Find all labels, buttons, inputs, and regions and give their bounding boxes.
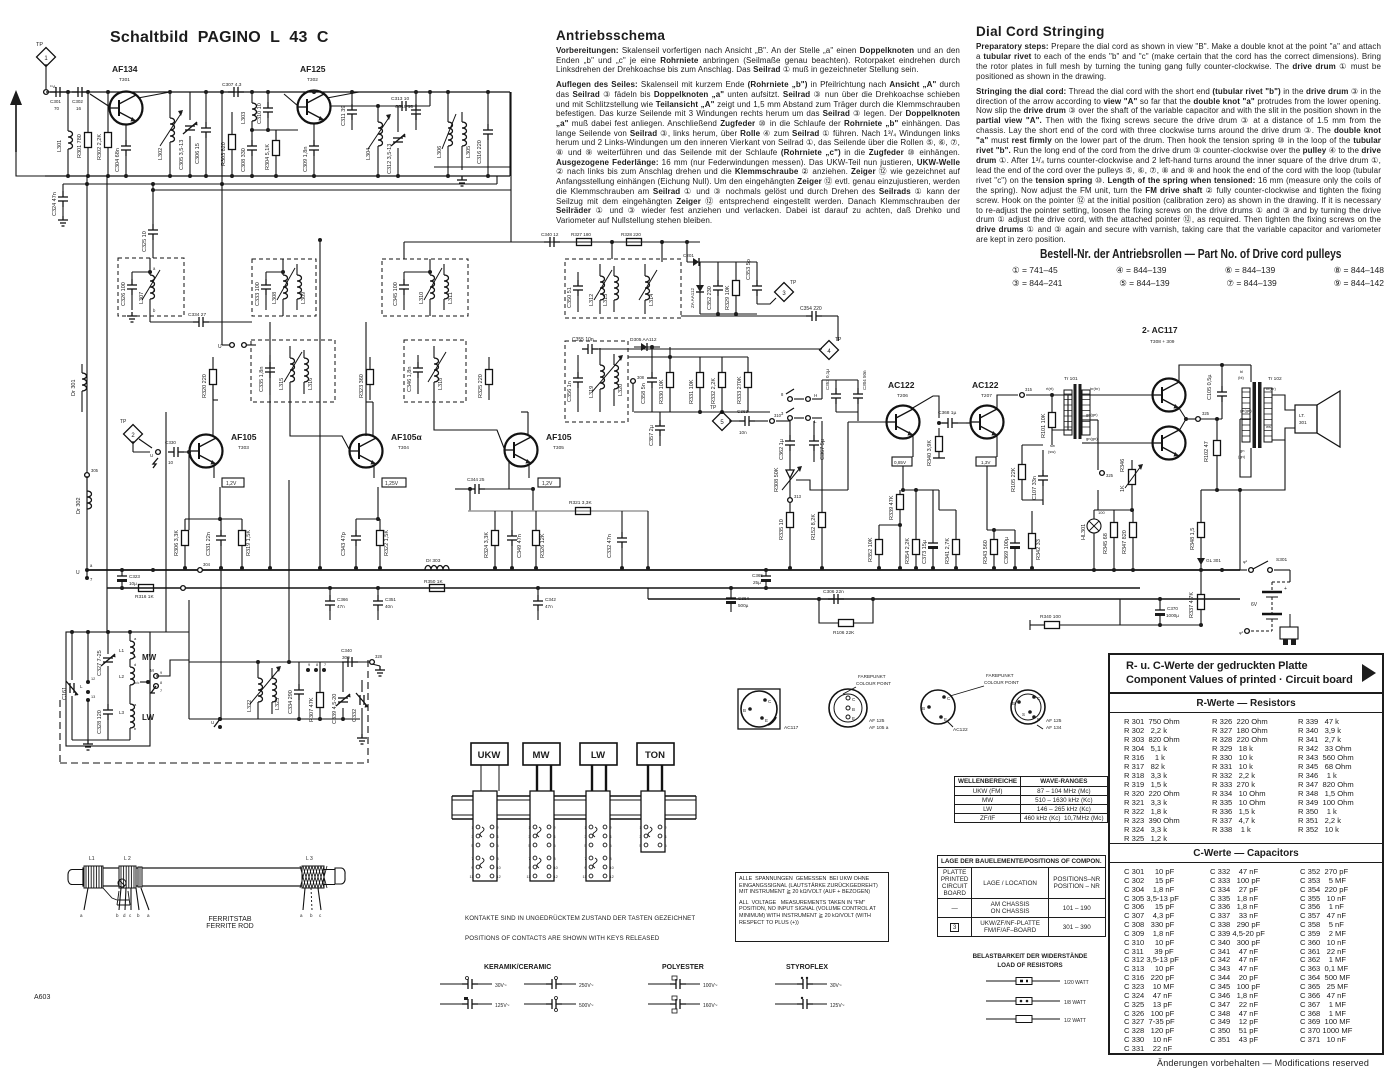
oscillator transformer L322 L323 — [258, 678, 263, 702]
wire right verticals to bus — [1097, 570, 1099, 588]
svg-text:AF125: AF125 — [300, 64, 326, 74]
svg-text:C331 22n: C331 22n — [206, 532, 212, 556]
svg-text:Tr 102: Tr 102 — [1268, 376, 1282, 382]
diode D305 AA112 — [634, 346, 660, 348]
switch contact U mixer — [139, 439, 152, 448]
capacitor C353 5p — [752, 280, 762, 296]
svg-text:C311 39: C311 39 — [341, 106, 347, 126]
node 308 open circle — [631, 379, 636, 384]
inductor L308 — [283, 275, 288, 299]
svg-text:C340 12: C340 12 — [541, 232, 559, 237]
svg-text:8: 8 — [160, 681, 162, 685]
svg-text:3: 3 — [528, 835, 530, 839]
ferrite ring L2b — [138, 867, 142, 887]
wire lamp rail — [1094, 509, 1133, 511]
transistor AC122 T206 — [887, 406, 920, 439]
svg-text:C335 1,8n: C335 1,8n — [259, 367, 265, 392]
resistor R325 220 — [486, 370, 493, 385]
svg-text:1K: 1K — [1120, 485, 1126, 492]
wire main bus 1 — [87, 569, 1240, 571]
wire feedback from speaker — [1240, 440, 1285, 490]
svg-text:M: M — [150, 668, 154, 673]
svg-text:6: 6 — [665, 844, 667, 848]
switch contacts UKW — [476, 825, 480, 829]
resistor R305 22K — [1019, 465, 1026, 480]
resistor R102 47 — [1214, 441, 1221, 456]
variable inductor L302 — [170, 118, 175, 142]
svg-text:br(br): br(br) — [1266, 386, 1276, 391]
svg-text:L 2: L 2 — [124, 856, 131, 862]
svg-text:R335 10: R335 10 — [779, 519, 785, 540]
svg-text:LW: LW — [142, 713, 154, 722]
capacitor C352 230 — [713, 280, 723, 296]
svg-text:(gn): (gn) — [1238, 454, 1246, 459]
inductor L314 — [645, 276, 650, 300]
inductor L312 — [600, 276, 605, 300]
svg-text:R332 2,2K: R332 2,2K — [711, 378, 717, 404]
svg-text:R333 270K: R333 270K — [737, 376, 743, 404]
wire TP1 to rail — [45, 64, 47, 89]
svg-text:308: 308 — [637, 375, 645, 380]
legend keramik cap 30V — [440, 983, 465, 985]
svg-text:C373 15µ: C373 15µ — [922, 539, 928, 564]
svg-text:R326 12K: R326 12K — [540, 533, 546, 558]
resistor R326 12K — [533, 531, 540, 546]
svg-text:8: 8 — [781, 392, 784, 397]
svg-text:L314: L314 — [649, 294, 655, 306]
wire main bus 3 — [648, 598, 1240, 600]
resistor R321 3.3K — [576, 508, 591, 515]
svg-text:R304 5,1K: R304 5,1K — [265, 144, 271, 170]
push button UKW — [471, 743, 508, 765]
svg-text:E: E — [1037, 717, 1040, 722]
svg-text:T207: T207 — [981, 393, 992, 399]
contacts osc top — [306, 668, 310, 672]
svg-text:AF 134: AF 134 — [1046, 725, 1062, 731]
wire x107 vertical from top — [106, 176, 108, 632]
svg-text:5: 5 — [720, 420, 724, 426]
legend resistor 1/20 watt — [986, 980, 1016, 982]
svg-text:5: 5 — [584, 844, 586, 848]
svg-text:1/8 WATT: 1/8 WATT — [1064, 1000, 1086, 1006]
capacitor C363 10n af coupling — [739, 416, 755, 426]
capacitor C356 1n — [573, 372, 583, 388]
svg-text:C107 33n: C107 33n — [1032, 476, 1038, 500]
svg-text:C312 3,5-13: C312 3,5-13 — [387, 144, 393, 174]
transistor AC117 T308 — [1153, 379, 1186, 412]
dial lamp HL301 — [1087, 519, 1101, 533]
svg-text:B: B — [852, 707, 855, 712]
svg-text:C332: C332 — [352, 709, 358, 722]
wire IF3 internals — [404, 271, 430, 273]
svg-text:1: 1 — [584, 826, 586, 830]
battery B301 6V — [1262, 591, 1282, 593]
svg-text:8: 8 — [554, 857, 556, 861]
svg-text:UKW: UKW — [478, 750, 501, 761]
junction dots bus — [151, 568, 155, 572]
svg-text:12: 12 — [610, 875, 614, 879]
svg-text:R339 47K: R339 47K — [889, 495, 895, 520]
wire collector AF125 — [327, 92, 359, 98]
wire base AC122-2 — [966, 422, 970, 424]
svg-text:2: 2 — [497, 826, 499, 830]
ferrite screw box — [117, 891, 130, 905]
dashed AM boundary left — [59, 700, 61, 763]
svg-text:C370: C370 — [1167, 606, 1178, 611]
transistor AF105 T305 — [505, 434, 538, 467]
svg-text:328: 328 — [375, 654, 383, 659]
svg-text:5: 5 — [471, 844, 473, 848]
svg-text:ge(ge): ge(ge) — [1086, 412, 1098, 417]
svg-text:R308 50K: R308 50K — [774, 467, 780, 492]
wire top band inner rail segment — [434, 166, 510, 168]
svg-text:0,85V: 0,85V — [894, 460, 907, 465]
svg-text:R352 10K: R352 10K — [868, 537, 874, 562]
svg-text:b: b — [134, 654, 137, 659]
inductor L310 — [430, 275, 435, 299]
resistor R323 360 — [367, 370, 374, 385]
resistor R101 10K — [1049, 413, 1056, 428]
junction dots top rail — [66, 90, 70, 94]
svg-text:2- AC117: 2- AC117 — [1142, 325, 1178, 335]
wire AGC vertical x153 — [152, 184, 154, 224]
resistor R350 1K — [430, 585, 445, 592]
node TP5 test point — [713, 412, 732, 431]
svg-text:sw: sw — [1050, 443, 1055, 448]
capacitor C333 100 — [261, 279, 271, 295]
svg-text:AF105: AF105 — [231, 432, 257, 442]
capacitor C353b 0.1u — [831, 388, 841, 404]
IF transformer 1 dashed box L307 C326 — [118, 258, 184, 316]
inductor L3 LW — [130, 704, 135, 728]
junction dots bottom rail — [66, 174, 70, 178]
svg-text:C332 47n: C332 47n — [607, 534, 613, 558]
svg-text:12: 12 — [91, 677, 95, 681]
svg-text:R348 1,5: R348 1,5 — [1190, 528, 1196, 550]
svg-text:FARBPUNKT: FARBPUNKT — [858, 674, 886, 679]
capacitor C319 10 — [415, 92, 417, 130]
wire emitter AC122-1 — [912, 435, 914, 457]
svg-text:R306 3,3K: R306 3,3K — [174, 530, 180, 556]
wire tone caps rail — [822, 379, 858, 381]
ground C332 — [357, 734, 367, 744]
svg-text:C: C — [1037, 696, 1041, 701]
wire IF2 internals — [266, 271, 283, 273]
wire Tr102 secondary to speaker — [1272, 395, 1295, 410]
svg-text:AC122: AC122 — [953, 727, 968, 733]
svg-text:a: a — [147, 913, 150, 918]
svg-text:313: 313 — [794, 494, 802, 499]
svg-text:C346 1,8n: C346 1,8n — [407, 367, 413, 392]
trimmer C312 3,5-13 — [391, 134, 406, 146]
svg-text:1,3V: 1,3V — [981, 460, 991, 465]
svg-text:40n: 40n — [385, 604, 393, 609]
svg-text:500V~: 500V~ — [579, 1003, 594, 1009]
wire x320 vertical — [319, 240, 321, 568]
wire af line down — [837, 316, 839, 341]
resistor R327 180 — [577, 239, 592, 246]
svg-text:Dr 301: Dr 301 — [71, 379, 77, 396]
svg-text:13: 13 — [91, 695, 95, 699]
svg-text:1: 1 — [471, 826, 473, 830]
resistor R324 3.3K — [492, 531, 499, 546]
capacitor C351 40n — [373, 595, 383, 611]
wire R352 link — [879, 524, 900, 526]
svg-text:10: 10 — [497, 866, 501, 870]
diode Q201 detector — [687, 261, 705, 263]
svg-text:L313: L313 — [603, 294, 609, 306]
svg-text:ZA AA112: ZA AA112 — [690, 287, 695, 308]
svg-text:47n: 47n — [337, 604, 345, 609]
svg-text:R319 1,5K: R319 1,5K — [246, 530, 252, 556]
svg-text:U: U — [211, 720, 214, 725]
svg-text:9: 9 — [528, 866, 530, 870]
inductor L318 — [434, 358, 439, 382]
IF transformer 2 dashed box L308 L309 C333 — [252, 259, 316, 316]
capacitor C366 47n — [325, 595, 335, 611]
svg-text:AF 105 a: AF 105 a — [869, 725, 889, 731]
wire base AF125 — [252, 129, 298, 131]
svg-text:25µ: 25µ — [753, 580, 761, 585]
Tr101 secondary leads — [1082, 394, 1090, 396]
svg-text:7: 7 — [160, 689, 162, 693]
svg-text:TP: TP — [835, 337, 842, 343]
speaker LT — [1295, 405, 1317, 433]
node 328 open circle — [370, 660, 375, 665]
svg-text:L307: L307 — [139, 292, 145, 304]
svg-text:B: B — [743, 708, 746, 713]
svg-text:C345 100: C345 100 — [393, 282, 399, 306]
svg-text:6: 6 — [497, 844, 499, 848]
svg-text:3: 3 — [782, 291, 786, 297]
inductor Dr303 — [425, 566, 449, 571]
node TP2 test point — [124, 425, 143, 444]
resistor R106 22K — [819, 599, 838, 623]
IF transformer dashed box L312 L313 L314 — [565, 259, 681, 318]
wire left long vertical x86 — [86, 176, 88, 568]
svg-text:C302: C302 — [72, 99, 83, 104]
svg-text:C: C — [947, 696, 951, 701]
svg-text:HL301: HL301 — [1081, 524, 1087, 540]
capacitor C358 5n — [647, 372, 657, 388]
resistor R301 780 — [85, 133, 92, 148]
wire T308 emitter / T309 collector junction — [1179, 408, 1186, 431]
dashed AM boundary horizontal — [60, 762, 368, 764]
svg-text:12: 12 — [554, 875, 558, 879]
svg-text:AF105α: AF105α — [391, 432, 423, 442]
capacitor C316 220 — [483, 124, 493, 140]
capacitor C343 47p — [351, 530, 361, 546]
ferrite leads b d c — [119, 888, 121, 910]
svg-text:R316 1K: R316 1K — [135, 594, 154, 600]
voltage label 0.85V — [892, 457, 912, 466]
svg-text:COLOUR POINT: COLOUR POINT — [856, 681, 891, 686]
svg-text:R342 33: R342 33 — [1036, 539, 1042, 560]
svg-text:C368 1µ: C368 1µ — [938, 410, 956, 416]
svg-text:315: 315 — [1025, 387, 1033, 392]
wire IF row2 to T304 base — [290, 398, 349, 449]
resistor R329 10K — [733, 281, 740, 296]
svg-text:R320 220: R320 220 — [202, 374, 208, 398]
switch rail bar — [452, 795, 696, 797]
capacitor C313 10 — [396, 101, 412, 111]
capacitor C306b 22n — [828, 594, 844, 604]
legend keramik cap 250V — [524, 983, 549, 985]
inductor Dr301 — [82, 373, 87, 391]
wire IF1 internals — [132, 271, 150, 273]
capacitor C326 100 — [127, 279, 137, 295]
svg-text:C201: C201 — [683, 253, 694, 258]
variable capacitor C161 — [66, 681, 78, 696]
svg-text:2: 2 — [554, 826, 556, 830]
resistor R339 47K — [897, 495, 904, 510]
wire battery branch — [1120, 624, 1201, 626]
svg-text:7: 7 — [584, 857, 586, 861]
svg-text:C340: C340 — [341, 648, 352, 653]
wire emitter bus T303 — [219, 487, 221, 519]
svg-text:ge(ge): ge(ge) — [1240, 408, 1252, 413]
capacitor C331 22n — [216, 530, 226, 546]
svg-text:C353 5p: C353 5p — [746, 259, 752, 280]
capacitor C370 1000u — [1155, 610, 1165, 616]
wire base AC122-1 — [847, 422, 849, 490]
svg-text:L 3: L 3 — [306, 856, 313, 862]
svg-text:R321 3,3K: R321 3,3K — [569, 500, 592, 506]
push button MW — [523, 743, 560, 765]
pinout AC117 bottom view — [738, 689, 780, 729]
svg-text:AC117: AC117 — [784, 725, 799, 731]
svg-text:L320: L320 — [618, 384, 624, 396]
svg-text:1,25V: 1,25V — [385, 481, 399, 487]
wire detector top — [686, 242, 688, 262]
capacitor C328 120 — [103, 704, 113, 720]
resistor R330 10K — [667, 373, 674, 388]
svg-text:L310: L310 — [419, 292, 425, 304]
svg-text:L303: L303 — [241, 112, 247, 124]
svg-text:C358 5n: C358 5n — [641, 383, 647, 404]
svg-text:47n: 47n — [545, 604, 553, 609]
svg-text:301: 301 — [1299, 420, 1307, 425]
svg-text:1: 1 — [528, 826, 530, 830]
svg-text:2: 2 — [665, 826, 667, 830]
svg-text:8: 8 — [497, 857, 499, 861]
svg-text:250V~: 250V~ — [579, 983, 594, 989]
wire bus3 left stub — [647, 588, 649, 599]
inductor L2 — [130, 667, 135, 685]
Tr101 primary winding leads — [1052, 395, 1068, 430]
svg-text:E: E — [765, 718, 768, 723]
svg-text:C310 10: C310 10 — [257, 103, 263, 124]
svg-text:125V~: 125V~ — [495, 1003, 510, 1009]
svg-text:a: a — [300, 913, 303, 918]
svg-text:3: 3 — [781, 411, 784, 416]
resistor R306 3.3K — [182, 531, 189, 546]
svg-text:7: 7 — [471, 857, 473, 861]
svg-text:R102 47: R102 47 — [1204, 441, 1210, 462]
svg-text:C353 0,1µ: C353 0,1µ — [825, 369, 830, 390]
svg-text:C365: C365 — [752, 573, 763, 578]
capacitor C306 15 — [205, 92, 207, 122]
capacitor C334 290 — [294, 684, 304, 700]
ground IF1 — [127, 312, 137, 322]
push button LW — [580, 743, 617, 765]
svg-text:L2: L2 — [119, 674, 125, 679]
wire left edge drop — [9, 529, 11, 531]
svg-text:rt(rt): rt(rt) — [1046, 386, 1054, 391]
trimmer C327 7-25 — [101, 654, 116, 666]
svg-text:300: 300 — [342, 655, 350, 660]
svg-text:C308 330: C308 330 — [241, 148, 247, 172]
svg-text:C354 220: C354 220 — [800, 306, 822, 312]
svg-text:4: 4 — [665, 835, 667, 839]
resistor R319 1.5K — [239, 531, 246, 546]
wire battery top — [1289, 570, 1291, 582]
wire x222 vertical — [221, 184, 223, 262]
resistor R346 1K feedback — [1129, 470, 1136, 485]
wire Tr101 center tap — [1097, 420, 1099, 470]
svg-text:T303: T303 — [238, 445, 249, 451]
wire drops from R row — [611, 242, 613, 259]
svg-text:TP: TP — [790, 280, 797, 286]
wire R341 top — [939, 509, 956, 511]
svg-text:b: b — [116, 913, 119, 918]
wire af to volume — [776, 420, 790, 422]
svg-text:R323 360: R323 360 — [359, 374, 365, 398]
wire right edge drop to AGC — [496, 176, 498, 184]
resistor R303 820 — [229, 135, 236, 150]
svg-text:L3: L3 — [119, 710, 125, 715]
wire gray emitter rail — [468, 510, 648, 512]
svg-text:TP: TP — [120, 419, 127, 425]
svg-text:C306 15: C306 15 — [195, 143, 201, 164]
wire to AC117 bases — [1090, 394, 1152, 396]
svg-text:c: c — [319, 913, 322, 918]
inductor L309 — [297, 275, 302, 299]
svg-text:ws: ws — [1266, 424, 1271, 429]
svg-text:C357 2µ: C357 2µ — [649, 424, 655, 446]
switch contacts M group — [146, 680, 150, 684]
svg-text:C323: C323 — [129, 574, 140, 579]
svg-text:C105 0,5µ: C105 0,5µ — [1207, 374, 1213, 400]
svg-text:16: 16 — [76, 106, 82, 111]
svg-text:T301: T301 — [119, 77, 130, 83]
svg-text:160V~: 160V~ — [703, 1003, 718, 1009]
svg-text:500µ: 500µ — [738, 603, 749, 608]
svg-text:R322 1,5K: R322 1,5K — [384, 530, 390, 556]
svg-text:AF 125: AF 125 — [1046, 718, 1062, 724]
svg-text:B: B — [922, 706, 925, 711]
ferrite rod right end cap — [323, 868, 345, 885]
wire node325 to R102 — [1201, 418, 1222, 420]
wire IF row2 to T305 base — [434, 396, 504, 448]
svg-text:L: L — [80, 684, 83, 689]
transistor AF134 T301 — [110, 92, 143, 125]
svg-text:C350 51: C350 51 — [567, 287, 573, 308]
svg-text:LT.: LT. — [1299, 413, 1305, 418]
svg-text:+: + — [1284, 586, 1287, 592]
capacitor C355 10n — [582, 344, 598, 354]
svg-text:c: c — [153, 288, 155, 293]
svg-text:304: 304 — [203, 562, 211, 567]
capacitor C324 47n — [62, 184, 64, 191]
switch S301 — [1249, 568, 1254, 573]
svg-text:R354 2,2K: R354 2,2K — [905, 538, 911, 564]
svg-text:L308: L308 — [272, 292, 278, 304]
wire R348 top to R102 — [1201, 489, 1217, 491]
wire battery minus — [1245, 629, 1250, 634]
svg-text:AF105: AF105 — [546, 432, 572, 442]
ground symbol top band — [457, 176, 467, 186]
